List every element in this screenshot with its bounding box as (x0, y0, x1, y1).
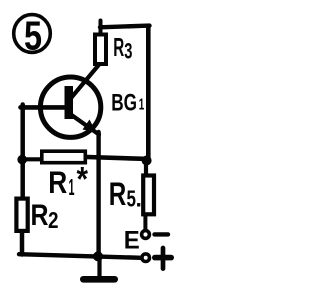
svg-text:2: 2 (48, 207, 59, 233)
svg-text:E: E (124, 226, 140, 254)
svg-text:.: . (136, 186, 142, 212)
svg-text:5: 5 (24, 12, 42, 58)
svg-text:R: R (48, 164, 67, 200)
svg-text:1: 1 (139, 96, 145, 113)
svg-text:R: R (31, 199, 49, 232)
svg-text:R: R (113, 34, 124, 62)
svg-text:R: R (109, 176, 127, 212)
svg-text:*: * (77, 161, 89, 199)
svg-text:BG: BG (111, 90, 137, 117)
svg-text:1: 1 (69, 174, 75, 200)
svg-text:3: 3 (124, 39, 132, 64)
